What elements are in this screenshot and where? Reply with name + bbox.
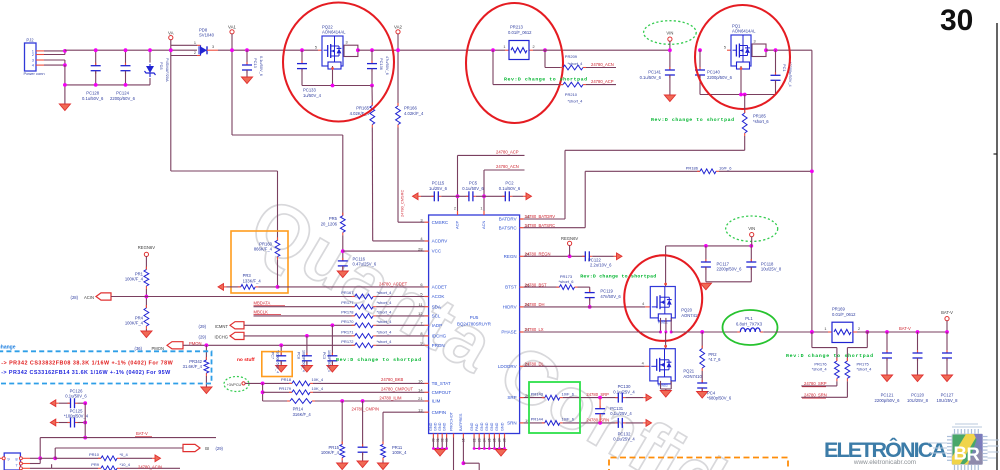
svg-text:PC122: PC122 — [588, 257, 601, 262]
svg-text:10u/25V_8: 10u/25V_8 — [761, 267, 782, 272]
svg-text:(29): (29) — [199, 324, 207, 329]
svg-text:PR210: PR210 — [565, 92, 578, 97]
svg-text:1: 1 — [503, 45, 505, 49]
svg-text:PC3: PC3 — [322, 352, 326, 359]
svg-text:PR11: PR11 — [392, 445, 403, 450]
svg-text:PC117: PC117 — [717, 261, 730, 266]
svg-text:-> PR342 CS33162FB14 31.6K 1/1: -> PR342 CS33162FB14 31.6K 1/16W +-1% (0… — [1, 370, 171, 376]
svg-text:ICMNT: ICMNT — [215, 324, 229, 329]
svg-text:*short_4: *short_4 — [568, 61, 584, 66]
svg-text:ACN: ACN — [481, 220, 486, 229]
svg-text:10/F_6: 10/F_6 — [562, 391, 575, 396]
svg-text:10/F_6: 10/F_6 — [719, 165, 732, 170]
svg-text:4: 4 — [642, 302, 644, 306]
svg-text:ACDRV: ACDRV — [432, 239, 448, 244]
svg-text:BAT-V: BAT-V — [899, 326, 911, 331]
svg-text:*10_4: *10_4 — [120, 462, 131, 467]
svg-text:(29): (29) — [199, 335, 207, 340]
svg-text:PC8: PC8 — [297, 352, 301, 359]
svg-text:CMSRC: CMSRC — [432, 220, 449, 225]
svg-text:SV1040: SV1040 — [199, 33, 215, 38]
svg-text:no stuff: no stuff — [237, 357, 255, 363]
svg-text:0.01/F_0612: 0.01/F_0612 — [508, 30, 532, 35]
svg-text:PC125: PC125 — [70, 408, 83, 413]
svg-text:Power conn: Power conn — [24, 71, 45, 76]
svg-text:24780_BKB: 24780_BKB — [381, 377, 404, 382]
svg-text:21: 21 — [418, 396, 423, 401]
svg-text:*short_4: *short_4 — [377, 339, 393, 344]
svg-text:2.2u/10V_6: 2.2u/10V_6 — [590, 263, 612, 268]
svg-text:24780_CMSRC: 24780_CMSRC — [400, 190, 405, 217]
svg-text:24780_BATDRV: 24780_BATDRV — [525, 214, 556, 219]
svg-text:PR169: PR169 — [832, 307, 845, 312]
svg-text:PR15: PR15 — [329, 445, 340, 450]
svg-text:VA: VA — [168, 30, 174, 35]
svg-text:100K_4: 100K_4 — [392, 450, 407, 455]
svg-text:*short_4: *short_4 — [377, 329, 393, 334]
svg-text:24780_CMPIN: 24780_CMPIN — [352, 407, 379, 412]
svg-text:+3VPCU: +3VPCU — [227, 383, 242, 387]
svg-text:LDODRV: LDODRV — [498, 364, 517, 369]
svg-text:24780_SRP: 24780_SRP — [586, 392, 609, 397]
svg-text:BAT-V: BAT-V — [136, 431, 148, 436]
svg-text:PROCHOT: PROCHOT — [449, 411, 453, 431]
svg-text:PR186: PR186 — [686, 165, 699, 170]
svg-text:ACOK: ACOK — [432, 294, 445, 299]
svg-text:PU5: PU5 — [470, 315, 479, 320]
svg-text:*short_4: *short_4 — [857, 367, 873, 372]
svg-text:PC128: PC128 — [86, 91, 99, 96]
svg-text:*0_4: *0_4 — [120, 452, 129, 457]
svg-text:2200p/50V_6: 2200p/50V_6 — [110, 96, 136, 101]
svg-text:PC140: PC140 — [707, 70, 720, 75]
svg-text:4.02K/F_4: 4.02K/F_4 — [404, 111, 424, 116]
svg-text:PR342: PR342 — [189, 359, 202, 364]
svg-text:BATPRES: BATPRES — [459, 413, 463, 431]
svg-text:24780_ACDET: 24780_ACDET — [379, 281, 408, 286]
svg-text:1u/25V_6: 1u/25V_6 — [429, 186, 448, 191]
svg-text:GND: GND — [495, 422, 499, 431]
svg-text:0.1u/50V_6: 0.1u/50V_6 — [82, 96, 104, 101]
svg-text:(28): (28) — [71, 295, 79, 300]
svg-text:BATDRV: BATDRV — [499, 217, 517, 222]
svg-text:PC7: PC7 — [271, 352, 275, 359]
svg-text:*short_4: *short_4 — [377, 309, 393, 314]
svg-text:1000P/50V_4: 1000P/50V_4 — [327, 350, 331, 372]
svg-text:SDA: SDA — [432, 304, 441, 309]
svg-text:CMPIN: CMPIN — [432, 410, 447, 415]
svg-text:10K_4: 10K_4 — [312, 377, 324, 382]
svg-text:PR176: PR176 — [814, 361, 827, 366]
svg-text:PD3: PD3 — [159, 62, 164, 70]
svg-text:0.1u/50V_6: 0.1u/50V_6 — [259, 56, 264, 76]
svg-text:PR209: PR209 — [565, 54, 578, 59]
svg-text:-> PR342 CS33832FB08 38.3K 1/1: -> PR342 CS33832FB08 38.3K 1/16W +-1% (0… — [1, 360, 173, 366]
svg-text:24780_ACN: 24780_ACN — [591, 62, 614, 67]
svg-text:24780_ACIN: 24780_ACIN — [138, 465, 162, 470]
svg-text:Rev:D change to shortpad: Rev:D change to shortpad — [504, 77, 587, 83]
svg-text:4: 4 — [642, 361, 644, 365]
svg-text:BQ24780SRUYR: BQ24780SRUYR — [457, 321, 491, 326]
svg-text:*short_6: *short_6 — [753, 119, 769, 124]
svg-text:3: 3 — [346, 41, 348, 45]
svg-text:PC133: PC133 — [303, 88, 316, 93]
svg-text:PC130: PC130 — [618, 384, 631, 389]
svg-text:47u/50V_6: 47u/50V_6 — [385, 56, 390, 75]
svg-text:PC124: PC124 — [116, 91, 129, 96]
svg-text:SRP: SRP — [507, 395, 516, 400]
svg-text:28: 28 — [418, 246, 423, 251]
svg-text:PC121: PC121 — [881, 393, 894, 398]
svg-text:VCC: VCC — [432, 249, 442, 254]
svg-text:PR185: PR185 — [753, 114, 766, 119]
svg-text:0.47u/25V_6: 0.47u/25V_6 — [353, 262, 377, 267]
svg-text:ACIN: ACIN — [84, 295, 94, 300]
svg-text:24780_ACN: 24780_ACN — [496, 164, 519, 169]
svg-text:10U/25V_8: 10U/25V_8 — [937, 398, 959, 403]
svg-text:0.1u/50V_6: 0.1u/50V_6 — [65, 394, 87, 399]
svg-text:PC126: PC126 — [70, 388, 83, 393]
svg-text:Rev:D change to shortpad: Rev:D change to shortpad — [580, 274, 656, 280]
svg-text:SRN: SRN — [507, 421, 517, 426]
svg-text:CMPOUT: CMPOUT — [432, 390, 452, 395]
svg-text:*short_4: *short_4 — [377, 319, 393, 324]
svg-text:BAT-V: BAT-V — [941, 310, 953, 315]
svg-text:6.8uH_7X7X3: 6.8uH_7X7X3 — [736, 321, 763, 326]
svg-text:30: 30 — [940, 4, 973, 37]
svg-text:PR18: PR18 — [281, 377, 292, 382]
svg-text:47n/50V_6: 47n/50V_6 — [600, 294, 621, 299]
svg-text:PC13: PC13 — [253, 58, 258, 68]
svg-text:PR5: PR5 — [329, 216, 338, 221]
svg-text:2: 2 — [454, 207, 456, 211]
svg-text:24780_CMPOUT: 24780_CMPOUT — [381, 387, 414, 392]
svg-text:GND: GND — [490, 422, 494, 431]
svg-text:2: 2 — [533, 45, 535, 49]
svg-text:(29): (29) — [216, 446, 224, 451]
svg-text:IDCHG: IDCHG — [215, 335, 229, 340]
svg-text:PQ20: PQ20 — [681, 308, 692, 313]
svg-text:TB_STAT: TB_STAT — [432, 381, 451, 386]
svg-text:PR2: PR2 — [708, 352, 717, 357]
svg-text:PC120: PC120 — [911, 393, 924, 398]
svg-text:GND: GND — [442, 422, 446, 431]
svg-text:2: 2 — [194, 51, 196, 55]
svg-text:change: change — [0, 345, 16, 351]
svg-text:13: 13 — [418, 407, 423, 412]
svg-text:10/F_6: 10/F_6 — [562, 417, 575, 422]
svg-text:GND: GND — [470, 422, 474, 431]
svg-text:PR170: PR170 — [341, 319, 354, 324]
svg-text:PR3: PR3 — [243, 273, 252, 278]
svg-text:24780_SRN: 24780_SRN — [586, 417, 609, 422]
svg-text:*1000P/50V_4: *1000P/50V_4 — [276, 350, 280, 373]
svg-text:PR172: PR172 — [341, 339, 354, 344]
svg-text:ACP: ACP — [455, 220, 460, 229]
svg-text:PR14: PR14 — [293, 407, 304, 412]
svg-text:VA1: VA1 — [228, 25, 237, 30]
svg-text:PC132: PC132 — [618, 431, 631, 436]
svg-text:PR178: PR178 — [341, 309, 354, 314]
svg-text:PR10: PR10 — [89, 452, 100, 457]
svg-text:12: 12 — [418, 311, 423, 316]
svg-text:0.01/F_0612: 0.01/F_0612 — [832, 312, 856, 317]
svg-text:BI: BI — [205, 446, 209, 451]
svg-text:24780_SRP: 24780_SRP — [804, 381, 827, 386]
svg-text:866K/F_4: 866K/F_4 — [254, 247, 273, 252]
svg-text:10U/25V_8: 10U/25V_8 — [907, 398, 929, 403]
svg-text:PR4: PR4 — [135, 315, 144, 320]
svg-text:PR9: PR9 — [91, 462, 100, 467]
svg-text:0.1u/25V_4: 0.1u/25V_4 — [613, 437, 635, 442]
svg-text:*short_4: *short_4 — [568, 98, 584, 103]
svg-text:*short_6: *short_6 — [559, 279, 575, 284]
svg-text:10K_4: 10K_4 — [312, 386, 324, 391]
svg-text:16: 16 — [418, 379, 423, 384]
svg-text:PC119: PC119 — [600, 289, 613, 294]
svg-text:PC116: PC116 — [353, 256, 366, 261]
svg-text:REGN6V: REGN6V — [138, 245, 155, 250]
svg-text:100K/F_4: 100K/F_4 — [321, 450, 340, 455]
svg-text:REGN6V: REGN6V — [561, 236, 578, 241]
svg-text:133K/F_4: 133K/F_4 — [243, 279, 262, 284]
svg-text:MBCLK: MBCLK — [254, 310, 269, 315]
svg-text:1000P/50V_4: 1000P/50V_4 — [302, 350, 306, 372]
svg-text:*short_4: *short_4 — [377, 290, 393, 295]
svg-text:GND: GND — [485, 422, 489, 431]
svg-text:GND: GND — [480, 422, 484, 431]
svg-text:PC1: PC1 — [782, 64, 787, 72]
svg-text:GND: GND — [438, 422, 442, 431]
svg-text:IDCHG: IDCHG — [432, 334, 447, 339]
svg-text:B: B — [954, 443, 967, 464]
svg-text:PGND2: PGND2 — [658, 384, 668, 388]
svg-text:0.1u/50V_6: 0.1u/50V_6 — [640, 75, 662, 80]
svg-text:PC136: PC136 — [379, 58, 384, 70]
svg-text:*680p/50V_6: *680p/50V_6 — [707, 396, 732, 401]
svg-text:PC141: PC141 — [648, 70, 661, 75]
svg-text:PR144: PR144 — [531, 417, 544, 422]
svg-text:PR177: PR177 — [341, 300, 354, 305]
svg-text:Rev:D change to shortpad: Rev:D change to shortpad — [651, 117, 734, 123]
svg-text:PAD: PAD — [475, 423, 479, 431]
svg-text:PHASE: PHASE — [501, 330, 516, 335]
svg-text:24780_ACP: 24780_ACP — [591, 79, 614, 84]
svg-text:PL1: PL1 — [745, 316, 753, 321]
svg-text:HIDRV: HIDRV — [503, 305, 517, 310]
svg-text:Rev:D change to shortpad: Rev:D change to shortpad — [786, 353, 873, 359]
svg-text:PR143: PR143 — [531, 391, 544, 396]
svg-text:PR160: PR160 — [259, 241, 272, 246]
svg-text:*short_4: *short_4 — [812, 367, 828, 372]
svg-text:20_1206: 20_1206 — [321, 221, 338, 226]
svg-text:1u/50V_4: 1u/50V_4 — [303, 93, 322, 98]
svg-text:14: 14 — [418, 388, 423, 393]
svg-text:5: 5 — [315, 45, 317, 49]
svg-text:0.1u/25V_4: 0.1u/25V_4 — [610, 411, 632, 416]
svg-text:PR165: PR165 — [356, 106, 369, 111]
svg-text:0.1u/50V_6: 0.1u/50V_6 — [462, 186, 484, 191]
svg-text:PR1: PR1 — [135, 271, 144, 276]
svg-text:PR179: PR179 — [279, 386, 292, 391]
svg-text:*4.7_6: *4.7_6 — [708, 357, 721, 362]
svg-text:AON6414AL: AON6414AL — [732, 29, 756, 34]
svg-text:1: 1 — [194, 41, 196, 45]
svg-text:VIN: VIN — [748, 226, 755, 231]
svg-text:SCL: SCL — [432, 314, 441, 319]
svg-text:2200p/50V_6: 2200p/50V_6 — [875, 398, 901, 403]
svg-text:0.1u/25V_4: 0.1u/25V_4 — [613, 389, 635, 394]
svg-text:*short_4: *short_4 — [377, 300, 393, 305]
svg-text:2: 2 — [858, 327, 860, 331]
svg-text:REGN: REGN — [504, 254, 517, 259]
svg-text:PC115: PC115 — [432, 181, 445, 186]
svg-text:24780_ILIM: 24780_ILIM — [379, 396, 402, 401]
svg-text:100K/F_4: 100K/F_4 — [125, 277, 144, 282]
svg-text:www.eletronicabr.com: www.eletronicabr.com — [853, 459, 916, 466]
svg-text:R: R — [967, 444, 980, 465]
svg-text:PR167: PR167 — [341, 290, 354, 295]
svg-text:PC4: PC4 — [707, 390, 716, 395]
svg-text:24780_BST: 24780_BST — [525, 282, 548, 287]
svg-text:PC2: PC2 — [505, 181, 514, 186]
svg-text:PQ21: PQ21 — [683, 369, 694, 374]
svg-text:MBDATA: MBDATA — [254, 300, 271, 305]
svg-text:PR171: PR171 — [341, 329, 354, 334]
svg-text:0.1u/50V_6: 0.1u/50V_6 — [499, 186, 521, 191]
svg-text:24780_ACP: 24780_ACP — [496, 150, 519, 155]
svg-text:3: 3 — [754, 39, 756, 43]
svg-text:PC127: PC127 — [941, 393, 954, 398]
svg-text:2200p/50V_6: 2200p/50V_6 — [707, 75, 733, 80]
svg-text:PR166: PR166 — [404, 106, 417, 111]
svg-text:3: 3 — [212, 45, 214, 49]
svg-text:AON7410: AON7410 — [683, 374, 702, 379]
svg-text:AON6414AL: AON6414AL — [322, 30, 346, 35]
svg-text:31.6K/F_4: 31.6K/F_4 — [183, 364, 203, 369]
svg-text:2200p/50V_6: 2200p/50V_6 — [717, 267, 743, 272]
svg-text:GND: GND — [429, 422, 433, 431]
svg-text:PC131: PC131 — [610, 406, 623, 411]
svg-text:316K/F_4: 316K/F_4 — [293, 412, 312, 417]
svg-text:100K/F_4: 100K/F_4 — [125, 321, 144, 326]
svg-text:BTST: BTST — [505, 285, 517, 290]
svg-text:GND: GND — [434, 422, 438, 431]
svg-text:PR175: PR175 — [857, 361, 870, 366]
svg-text:PGND1: PGND1 — [658, 321, 668, 325]
svg-text:PC118: PC118 — [761, 261, 774, 266]
svg-text:5: 5 — [724, 45, 726, 49]
svg-text:PJ2: PJ2 — [26, 38, 34, 43]
svg-text:ACDET: ACDET — [432, 285, 448, 290]
svg-text:VIN: VIN — [666, 30, 673, 35]
svg-text:1: 1 — [824, 327, 826, 331]
svg-text:PC5: PC5 — [469, 181, 478, 186]
svg-text:GND: GND — [500, 422, 504, 431]
svg-text:VA2: VA2 — [394, 25, 403, 30]
svg-text:Rev:D change to shortpad: Rev:D change to shortpad — [336, 357, 421, 363]
svg-text:ILIM: ILIM — [432, 399, 441, 404]
svg-text:24780_SRN: 24780_SRN — [804, 392, 827, 397]
svg-text:P4SMAF/20A: P4SMAF/20A — [165, 58, 170, 82]
svg-text:IADP: IADP — [432, 323, 443, 328]
svg-text:BATSRC: BATSRC — [499, 225, 518, 230]
svg-text:PRON: PRON — [432, 343, 445, 348]
svg-text:1: 1 — [480, 207, 482, 211]
